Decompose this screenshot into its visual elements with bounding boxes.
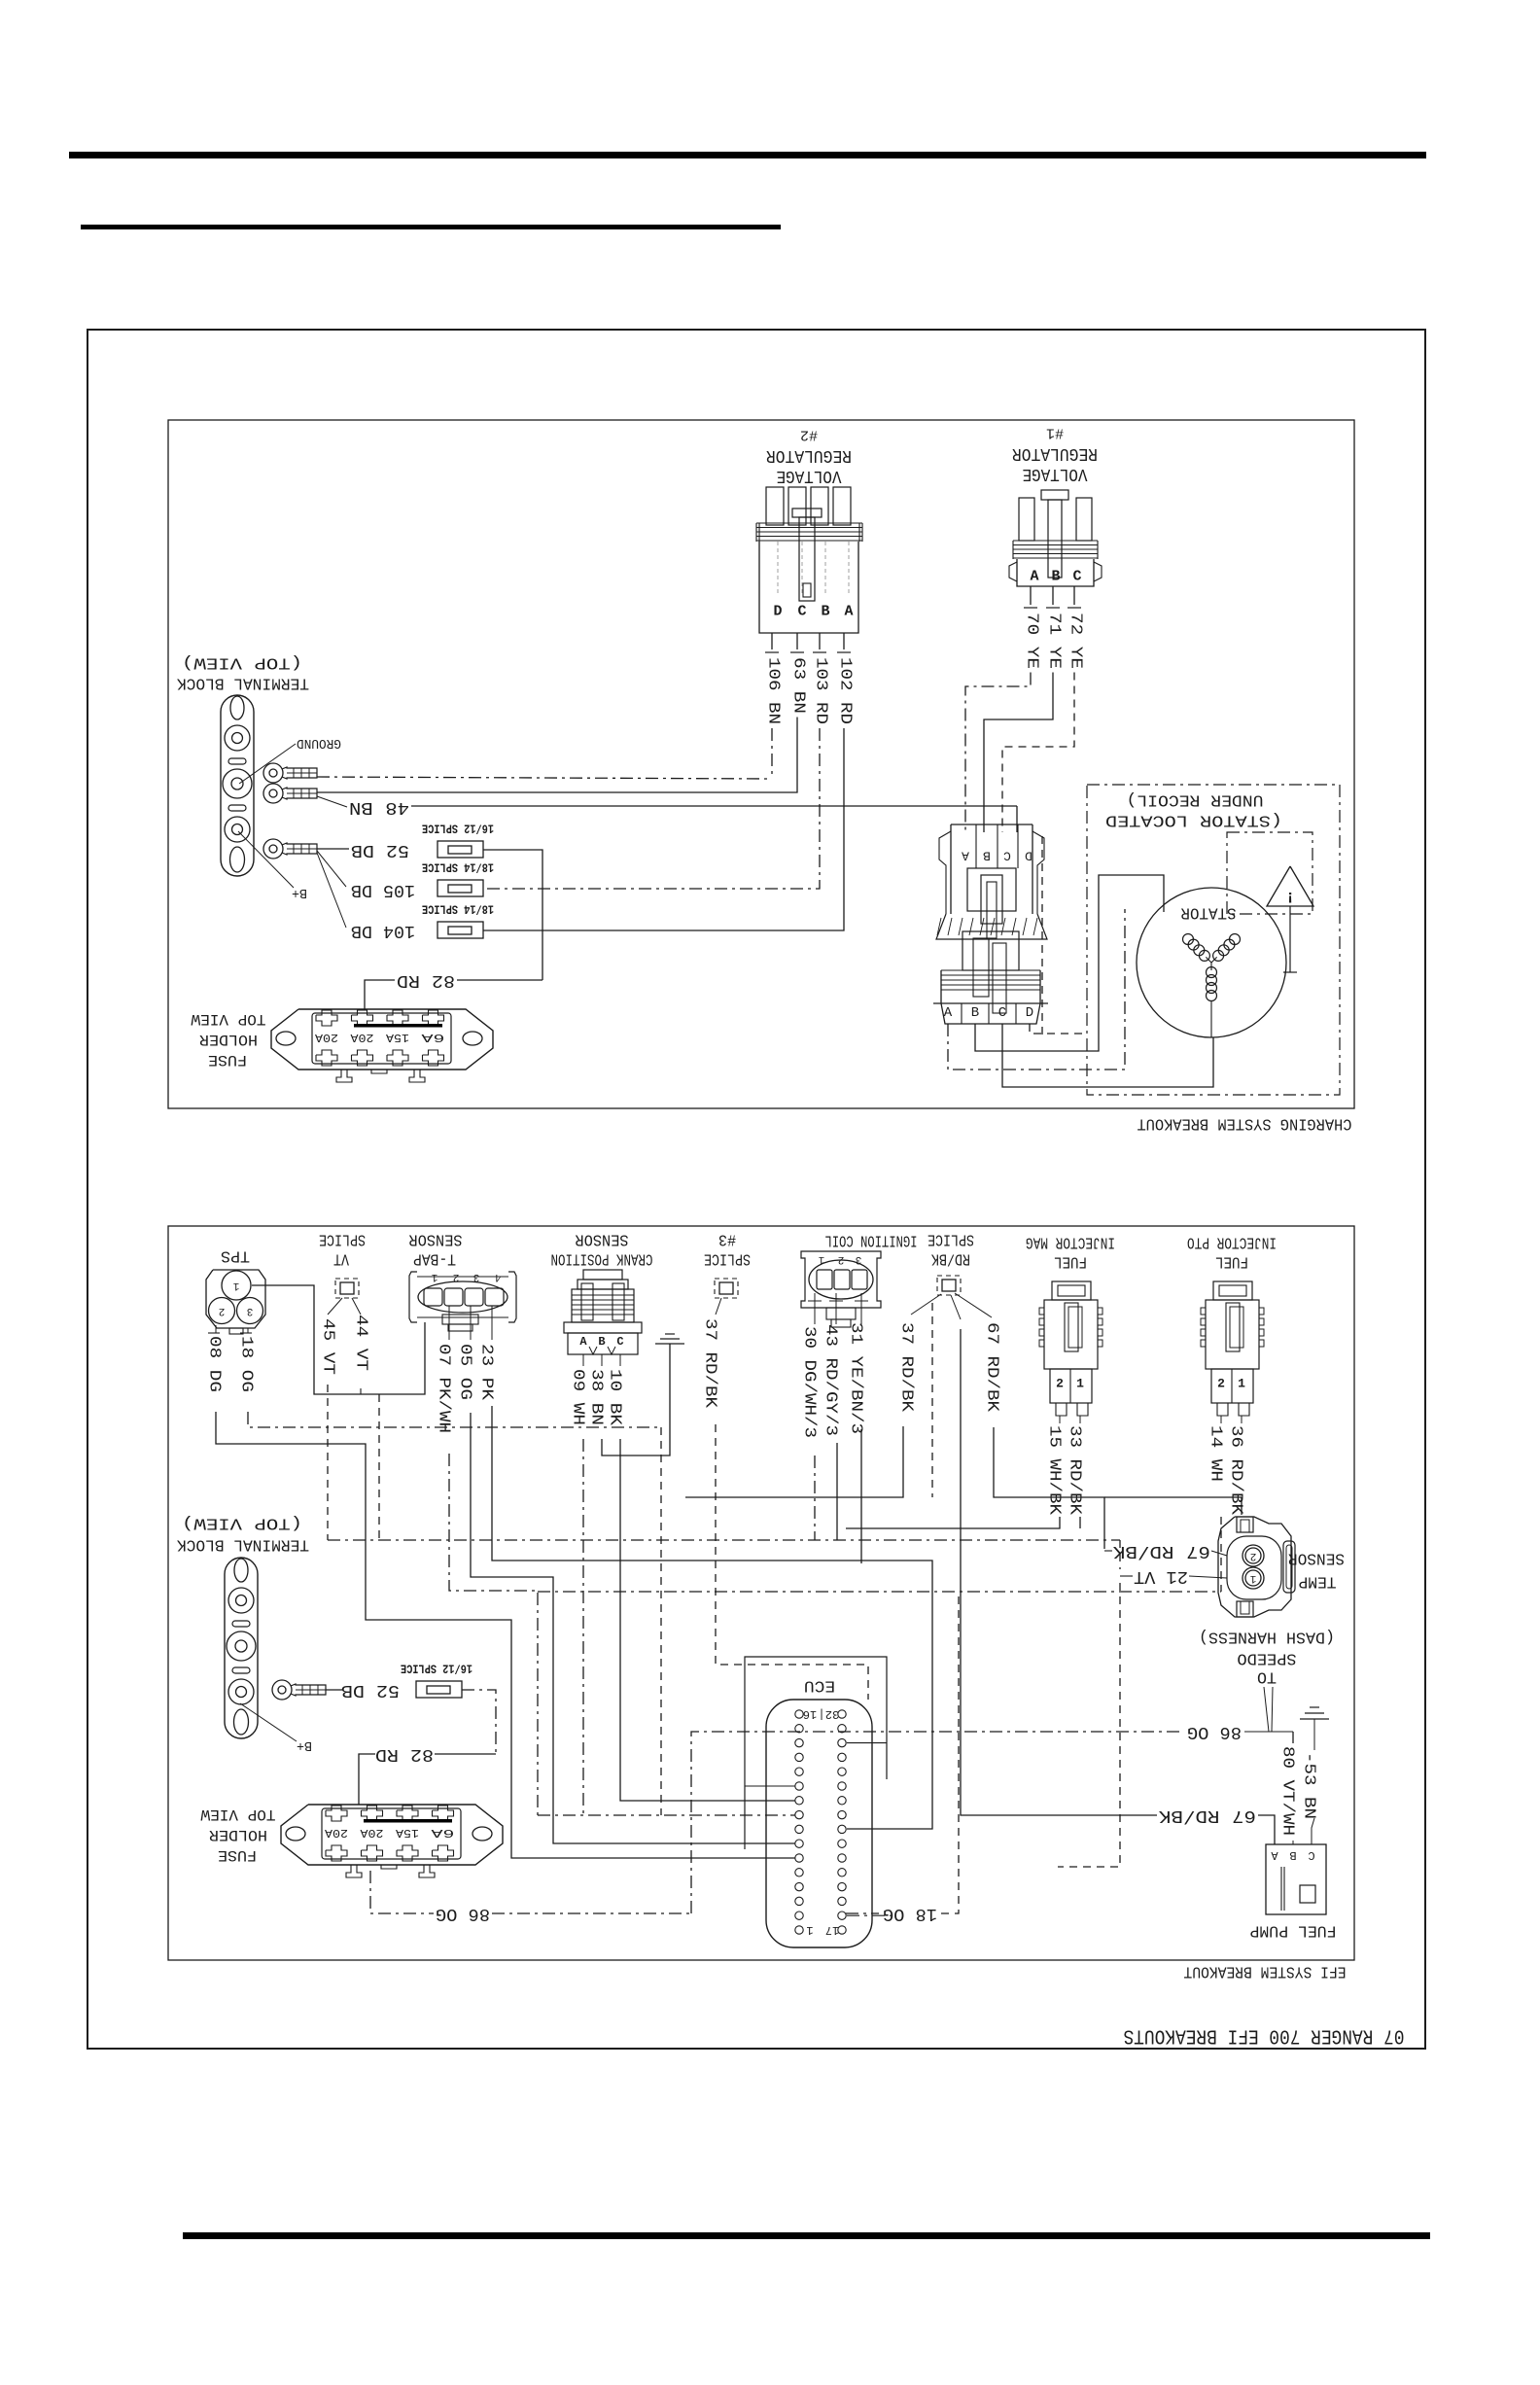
svg-text:52 DB: 52 DB: [351, 840, 409, 859]
svg-text:86 OG: 86 OG: [436, 1904, 490, 1923]
svg-text:82 RD: 82 RD: [397, 970, 455, 990]
svg-text:SPEEDO: SPEEDO: [1238, 1649, 1297, 1667]
svg-text:C: C: [1308, 1848, 1314, 1862]
svg-text:SENSOR: SENSOR: [409, 1230, 463, 1248]
svg-text:ECU: ECU: [804, 1676, 835, 1695]
svg-text:C: C: [797, 604, 806, 620]
svg-text:EFI SYSTEM BREAKOUT: EFI SYSTEM BREAKOUT: [1184, 1962, 1347, 1981]
svg-text:GROUND: GROUND: [297, 735, 341, 751]
svg-text:37 RD/BK: 37 RD/BK: [701, 1318, 719, 1409]
svg-text:20A: 20A: [314, 1031, 338, 1044]
svg-text:1: 1: [818, 1253, 824, 1265]
svg-text:A: A: [944, 1005, 953, 1021]
svg-text:63 BN: 63 BN: [789, 657, 808, 714]
svg-text:18/14 SPLICE: 18/14 SPLICE: [422, 860, 494, 875]
svg-text:3: 3: [247, 1305, 254, 1316]
svg-text:C: C: [1003, 849, 1011, 863]
svg-text:15 WH/BK: 15 WH/BK: [1045, 1425, 1064, 1516]
svg-text:(DASH HARNESS): (DASH HARNESS): [1199, 1628, 1335, 1646]
svg-text:D: D: [773, 604, 782, 620]
svg-text:#1: #1: [1046, 425, 1064, 441]
svg-text:FUEL: FUEL: [1215, 1252, 1248, 1271]
svg-text:31 YE/BN/3: 31 YE/BN/3: [847, 1322, 865, 1434]
svg-text:6A: 6A: [430, 1826, 454, 1840]
svg-text:HOLDER: HOLDER: [199, 1031, 258, 1048]
svg-text:B: B: [598, 1335, 605, 1349]
svg-text:15A: 15A: [395, 1826, 419, 1840]
svg-text:REGULATOR: REGULATOR: [1012, 443, 1098, 463]
svg-text:18/14 SPLICE: 18/14 SPLICE: [422, 902, 494, 917]
svg-text:B: B: [1051, 569, 1060, 585]
svg-text:05 OG: 05 OG: [456, 1344, 474, 1400]
svg-text:20A: 20A: [324, 1826, 348, 1840]
svg-text:|: |: [818, 1707, 824, 1721]
svg-text:102 RD: 102 RD: [836, 657, 855, 724]
svg-text:RD/BK: RD/BK: [930, 1249, 970, 1268]
svg-text:TERMINAL BLOCK: TERMINAL BLOCK: [176, 1535, 309, 1554]
svg-text:37 RD/BK: 37 RD/BK: [897, 1322, 916, 1413]
svg-text:106 BN: 106 BN: [764, 657, 783, 724]
svg-text:UNDER RECOIL): UNDER RECOIL): [1127, 790, 1264, 809]
svg-text:2: 2: [219, 1305, 226, 1316]
svg-text:SPLICE: SPLICE: [704, 1249, 751, 1268]
svg-text:32: 32: [825, 1707, 839, 1721]
svg-text:1: 1: [1238, 1377, 1245, 1391]
svg-text:B: B: [1289, 1848, 1296, 1862]
svg-text:VOLTAGE: VOLTAGE: [1023, 464, 1088, 483]
svg-text:B+: B+: [297, 1737, 312, 1753]
svg-text:B: B: [983, 849, 991, 863]
svg-text:08 DG: 08 DG: [205, 1336, 224, 1392]
svg-text:B: B: [971, 1005, 979, 1021]
svg-text:SPLICE: SPLICE: [927, 1230, 974, 1248]
svg-text:A: A: [844, 604, 853, 620]
svg-text:TERMINAL BLOCK: TERMINAL BLOCK: [176, 674, 309, 692]
svg-text:D: D: [1025, 849, 1032, 863]
svg-text:15A: 15A: [385, 1031, 409, 1044]
svg-text:TPS: TPS: [221, 1246, 250, 1265]
svg-text:#2: #2: [800, 427, 818, 443]
svg-text:B: B: [821, 604, 829, 620]
svg-text:67 RD/BK: 67 RD/BK: [1113, 1541, 1210, 1561]
svg-text:A: A: [962, 849, 969, 863]
svg-text:103 RD: 103 RD: [812, 657, 830, 724]
svg-text:10 BK: 10 BK: [606, 1369, 624, 1426]
svg-text:A: A: [1271, 1848, 1278, 1862]
svg-text:CHARGING SYSTEM BREAKOUT: CHARGING SYSTEM BREAKOUT: [1137, 1114, 1352, 1133]
svg-text:#3: #3: [718, 1230, 736, 1248]
svg-text:23 PK: 23 PK: [477, 1344, 496, 1401]
svg-text:REGULATOR: REGULATOR: [766, 445, 852, 465]
svg-text:1: 1: [232, 1280, 239, 1291]
svg-text:70 YE: 70 YE: [1023, 613, 1041, 669]
svg-text:(STATOR LOCATED: (STATOR LOCATED: [1105, 811, 1282, 829]
svg-text:30 DG/WH/3: 30 DG/WH/3: [800, 1326, 819, 1438]
svg-text:67 RD/BK: 67 RD/BK: [1159, 1806, 1256, 1825]
svg-text:3: 3: [473, 1271, 480, 1282]
svg-text:-53 BN: -53 BN: [1300, 1752, 1318, 1819]
svg-text:TO: TO: [1257, 1667, 1277, 1686]
svg-text:INJECTOR PTO: INJECTOR PTO: [1187, 1233, 1277, 1251]
svg-text:52 DB: 52 DB: [341, 1680, 400, 1700]
svg-text:20A: 20A: [360, 1826, 384, 1840]
svg-text:105 DB: 105 DB: [351, 880, 415, 899]
svg-text:38 BN: 38 BN: [587, 1369, 606, 1425]
svg-text:18 OG: 18 OG: [237, 1336, 256, 1392]
svg-text:6A: 6A: [420, 1031, 444, 1044]
svg-text:33 RD/BK: 33 RD/BK: [1066, 1425, 1084, 1516]
svg-text:07 PK/WH: 07 PK/WH: [435, 1344, 453, 1433]
svg-text:45 VT: 45 VT: [319, 1318, 337, 1375]
svg-text:SENSOR: SENSOR: [576, 1230, 629, 1248]
svg-text:1: 1: [1076, 1377, 1084, 1391]
svg-text:1: 1: [806, 1923, 813, 1937]
svg-text:16/12 SPLICE: 16/12 SPLICE: [422, 822, 494, 836]
svg-text:14 WH: 14 WH: [1207, 1425, 1225, 1482]
svg-text:67 RD/BK: 67 RD/BK: [983, 1322, 1001, 1413]
svg-text:TOP VIEW: TOP VIEW: [191, 1010, 265, 1028]
svg-text:16: 16: [803, 1707, 817, 1721]
svg-text:CRANK POSITION: CRANK POSITION: [551, 1249, 653, 1268]
svg-text:FUEL PUMP: FUEL PUMP: [1250, 1921, 1337, 1940]
svg-text:IGNITION COIL: IGNITION COIL: [825, 1231, 918, 1249]
svg-text:FUSE: FUSE: [208, 1051, 247, 1069]
svg-text:(TOP VIEW): (TOP VIEW): [182, 1514, 302, 1532]
svg-text:1: 1: [1249, 1572, 1256, 1584]
svg-text:21 VT: 21 VT: [1134, 1566, 1188, 1586]
svg-text:4: 4: [494, 1271, 501, 1282]
svg-text:44 VT: 44 VT: [352, 1315, 370, 1371]
svg-text:!: !: [1285, 888, 1295, 905]
svg-text:1: 1: [431, 1271, 437, 1282]
svg-text:TOP VIEW: TOP VIEW: [200, 1806, 275, 1823]
svg-text:2: 2: [453, 1271, 460, 1282]
svg-text:FUEL: FUEL: [1054, 1252, 1087, 1271]
svg-text:VT: VT: [333, 1249, 349, 1268]
svg-text:B+: B+: [292, 885, 307, 900]
svg-text:72 YE: 72 YE: [1067, 613, 1085, 669]
svg-text:2: 2: [1056, 1377, 1064, 1391]
svg-text:17: 17: [825, 1923, 839, 1937]
svg-text:80 VT/WH: 80 VT/WH: [1278, 1746, 1297, 1836]
svg-text:07 RANGER 700 EFI BREAKOUTS: 07 RANGER 700 EFI BREAKOUTS: [1124, 2024, 1405, 2047]
svg-text:D: D: [1026, 1005, 1033, 1021]
svg-text:3: 3: [856, 1253, 862, 1265]
svg-text:48 BN: 48 BN: [349, 797, 409, 817]
svg-text:104 DB: 104 DB: [351, 921, 415, 940]
svg-text:A: A: [579, 1335, 587, 1349]
svg-text:VOLTAGE: VOLTAGE: [777, 466, 842, 485]
svg-text:A: A: [1030, 569, 1038, 585]
svg-text:18 OG: 18 OG: [883, 1904, 937, 1923]
svg-text:T-BAP: T-BAP: [413, 1249, 456, 1268]
svg-text:INJECTOR MAG: INJECTOR MAG: [1026, 1233, 1115, 1251]
svg-text:SENSOR: SENSOR: [1288, 1549, 1345, 1567]
svg-text:20A: 20A: [350, 1031, 374, 1044]
svg-text:2: 2: [1217, 1377, 1225, 1391]
svg-text:C: C: [1072, 569, 1081, 585]
svg-text:71 YE: 71 YE: [1045, 613, 1064, 669]
svg-text:2: 2: [1250, 1550, 1257, 1561]
svg-text:SPLICE: SPLICE: [319, 1230, 366, 1248]
svg-text:43 RD/GY/3: 43 RD/GY/3: [822, 1324, 840, 1436]
svg-text:C: C: [616, 1335, 623, 1349]
svg-text:16/12 SPLICE: 16/12 SPLICE: [401, 1662, 472, 1676]
svg-text:C: C: [998, 1005, 1006, 1021]
svg-text:HOLDER: HOLDER: [209, 1826, 267, 1843]
svg-text:2: 2: [838, 1253, 845, 1265]
svg-text:09 WH: 09 WH: [569, 1369, 587, 1425]
svg-text:STATOR: STATOR: [1181, 903, 1237, 922]
svg-text:FUSE: FUSE: [218, 1846, 257, 1864]
svg-text:TEMP: TEMP: [1299, 1572, 1337, 1591]
svg-text:(TOP VIEW): (TOP VIEW): [182, 653, 302, 672]
svg-text:86 OG: 86 OG: [1187, 1722, 1242, 1741]
svg-text:82 RD: 82 RD: [375, 1744, 434, 1764]
